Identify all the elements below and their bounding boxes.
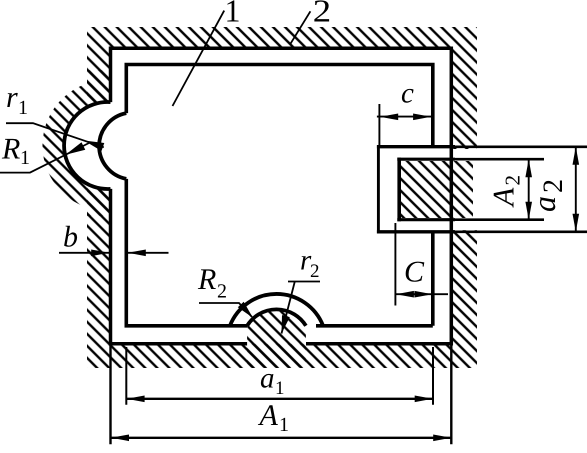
svg-text:2: 2 — [217, 281, 227, 303]
svg-text:R: R — [197, 263, 216, 296]
svg-text:1: 1 — [18, 97, 28, 119]
svg-text:A: A — [258, 399, 279, 432]
svg-text:1: 1 — [20, 147, 30, 169]
svg-text:2: 2 — [538, 179, 569, 193]
svg-text:2: 2 — [310, 261, 320, 282]
svg-text:1: 1 — [279, 414, 289, 436]
svg-text:a: a — [526, 196, 562, 212]
svg-text:C: C — [404, 256, 425, 289]
svg-text:R: R — [1, 133, 20, 166]
svg-text:r: r — [6, 81, 18, 114]
svg-text:2: 2 — [501, 175, 525, 186]
svg-text:a: a — [260, 363, 275, 395]
svg-text:b: b — [63, 221, 78, 254]
svg-text:c: c — [401, 78, 414, 110]
svg-text:1: 1 — [275, 378, 285, 399]
svg-text:2: 2 — [313, 0, 331, 29]
svg-text:A: A — [488, 187, 521, 208]
svg-text:1: 1 — [225, 0, 241, 29]
